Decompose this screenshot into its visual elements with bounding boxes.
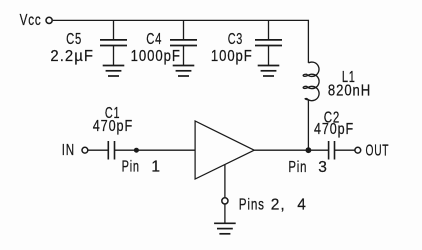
svg-text:C4: C4 [146,31,162,48]
svg-text:C3: C3 [228,31,243,48]
svg-text:3: 3 [318,159,327,176]
svg-text:C5: C5 [66,31,82,48]
svg-text:OUT: OUT [366,143,390,160]
svg-text:1000pF: 1000pF [131,48,181,65]
svg-text:470pF: 470pF [314,121,354,138]
svg-text:100pF: 100pF [211,48,253,65]
svg-text:1: 1 [151,158,160,175]
svg-text:Pin: Pin [288,159,307,176]
svg-text:Pin: Pin [122,158,140,175]
svg-text:4: 4 [297,196,306,213]
svg-text:470pF: 470pF [93,118,133,135]
svg-text:820nH: 820nH [328,83,371,100]
svg-text:Pins: Pins [239,196,265,213]
svg-text:IN: IN [62,142,75,159]
svg-text:2.2µF: 2.2µF [50,48,94,65]
svg-text:Vcc: Vcc [20,12,42,29]
svg-text:2,: 2, [271,196,286,213]
